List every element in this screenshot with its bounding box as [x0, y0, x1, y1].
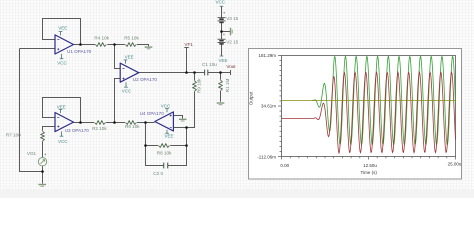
wire U1 feedback loop: [43, 19, 81, 45]
U4 inverting input mark: [170, 127, 172, 129]
node R9 tap on U2 output: [193, 71, 196, 74]
wire U2 output run to C1: [138, 72, 204, 74]
generator VG1: [38, 158, 46, 166]
wire R1 bottom to ground: [220, 91, 222, 102]
wire U3 noninverting input to R7: [43, 127, 56, 131]
wire battery V3 to node to battery V2: [221, 22, 223, 39]
power pin VCC U2: [124, 82, 128, 87]
node U3 output junction: [79, 121, 82, 124]
wire R6 to U4 output apex: [137, 122, 155, 124]
svg-text:U1 OPA170: U1 OPA170: [67, 49, 92, 54]
svg-text:VCC: VCC: [122, 88, 132, 93]
wire VF1 probe stub: [184, 48, 188, 73]
U2 noninverting input mark: [123, 78, 125, 80]
svg-text:12.50u: 12.50u: [363, 163, 377, 168]
resistor R9 10k: [193, 81, 197, 91]
wire power rail VCC pin to battery V3: [221, 6, 223, 17]
capacitor C2 0: [164, 163, 168, 169]
plot trace olive reference line: [282, 100, 456, 102]
U3 noninverting input mark: [57, 126, 59, 128]
power pin VCC U1: [60, 54, 64, 59]
svg-text:R4 10k: R4 10k: [94, 36, 109, 41]
wire U3 output to R2: [74, 122, 95, 124]
svg-text:0.00: 0.00: [280, 163, 289, 168]
svg-text:VCC: VCC: [161, 103, 171, 108]
svg-text:25.00u: 25.00u: [448, 161, 462, 166]
wire R4 to R5 node: [107, 44, 125, 46]
resistor R5 10k: [125, 43, 136, 47]
U3 inverting input mark: [57, 117, 59, 119]
svg-text:VCC: VCC: [57, 60, 67, 65]
svg-text:VEE: VEE: [165, 134, 174, 139]
node VF1 probe tap: [185, 71, 188, 74]
node U4 inverting input junction: [185, 126, 188, 129]
plot x-axis ticks: [282, 157, 456, 160]
U1 inverting input mark: [57, 39, 59, 41]
wire R2 to summing node to R6: [106, 122, 125, 124]
resistor R8 10k: [159, 144, 170, 148]
resistor R7 100: [41, 131, 45, 141]
svg-text:R9 10k: R9 10k: [196, 78, 201, 93]
power pin VEE rail bottom: [220, 55, 224, 57]
plot trace red (second output): [282, 72, 456, 153]
battery V2 15: [218, 39, 226, 44]
wire R8 leads: [146, 145, 187, 147]
svg-text:V3 15: V3 15: [226, 16, 238, 21]
svg-text:Time (s): Time (s): [361, 170, 378, 175]
resistor R6 10k: [126, 121, 137, 125]
svg-text:VCC: VCC: [58, 139, 68, 144]
wire U3 feedback loop: [43, 98, 81, 123]
resistor R4 10k: [95, 43, 106, 47]
power pin VEE U1: [59, 32, 63, 36]
capacitor C1 10u: [205, 70, 208, 76]
svg-text:U2 OPA170: U2 OPA170: [133, 77, 158, 82]
resistor R2 10k: [95, 121, 106, 125]
svg-text:U4 OPA170: U4 OPA170: [140, 111, 165, 116]
svg-text:Vout: Vout: [226, 64, 236, 69]
svg-text:R2 10k: R2 10k: [92, 126, 107, 131]
U1 noninverting input mark: [57, 48, 59, 50]
svg-text:V2 15: V2 15: [226, 40, 238, 45]
power pin VEE U4: [165, 130, 169, 134]
wire U4 feedback right side: [168, 128, 187, 166]
svg-text:Output: Output: [249, 91, 254, 105]
svg-text:R5 10k: R5 10k: [124, 35, 139, 40]
battery V3 15: [218, 18, 226, 23]
svg-text:VCC: VCC: [216, 0, 226, 5]
wire long left loop from U1 +input down to VG1 bottom node: [20, 49, 56, 172]
svg-text:VEE: VEE: [57, 104, 66, 109]
wire R9 top lead: [194, 73, 196, 81]
ground under VG1: [38, 184, 46, 186]
U4 noninverting input mark: [170, 115, 172, 117]
ground after R5: [145, 46, 153, 48]
wire battery V2 to VEE pin: [221, 44, 223, 56]
svg-text:VG1: VG1: [27, 151, 37, 156]
schematic canvas background: [0, 0, 474, 190]
wire VG1 bottom to ground through node: [42, 166, 44, 184]
wire summing node up to U2 noninverting input: [115, 79, 121, 123]
wire C1 to Vout pin: [208, 72, 231, 74]
power pin bars (VCC / VEE T-symbols): [59, 6, 224, 136]
node Vout / C1-R1 junction: [219, 71, 222, 74]
svg-text:R7 100: R7 100: [6, 132, 21, 137]
svg-text:VEE: VEE: [125, 55, 134, 60]
power pin VCC rail top: [220, 5, 224, 7]
svg-text:-112.06m: -112.06m: [257, 155, 276, 160]
svg-text:C1 10u: C1 10u: [202, 62, 217, 67]
node R4/R5 divider junction: [113, 43, 116, 46]
wire R7 to VG1 top: [42, 141, 44, 157]
wire node to U2 inverting input: [115, 45, 121, 69]
ground symbols: [38, 28, 232, 187]
node VG1 bottom ground junction: [41, 170, 44, 173]
plot trace green (growing oscillation): [312, 56, 456, 145]
svg-text:34.61m: 34.61m: [261, 104, 276, 109]
svg-text:VEE: VEE: [58, 25, 67, 30]
op-amp U1 OPA170: [55, 35, 74, 54]
ground under R1: [217, 102, 225, 104]
svg-text:VF1: VF1: [184, 42, 193, 47]
wire mid node to ground stub: [222, 31, 231, 33]
svg-text:U3 OPA170: U3 OPA170: [65, 128, 90, 133]
plot window: [249, 49, 462, 180]
node U4 output / feedback left junction: [144, 121, 147, 124]
op-amp U3 OPA170: [55, 113, 74, 132]
wire R1 top lead: [220, 73, 222, 80]
svg-text:R1 1M: R1 1M: [225, 78, 230, 92]
node battery midpoint junction: [220, 30, 223, 33]
power pin VCC U4: [165, 109, 169, 113]
svg-text:C2 0: C2 0: [153, 171, 163, 176]
U2 inverting input mark: [123, 68, 125, 70]
svg-text:R6 10k: R6 10k: [125, 124, 140, 129]
wire Vout pin bar: [230, 70, 232, 75]
node U1 output junction: [79, 43, 82, 46]
wire U4 noninverting input to ground stub: [173, 116, 182, 119]
node summing junction R2/R6 to U2: [113, 121, 116, 124]
op-amp U2 OPA170: [120, 63, 139, 82]
svg-text:VEE: VEE: [219, 58, 228, 63]
plot y-axis ticks: [278, 56, 282, 157]
node feedback right R8 junction: [185, 144, 188, 147]
op-amp U4 OPA170 (mirrored): [155, 112, 174, 131]
wire R9 bottom to U4 inverting input: [173, 92, 194, 128]
power pin VCC U3: [60, 131, 64, 136]
resistor R1 1M: [219, 80, 223, 91]
plot axis labels: [249, 53, 462, 175]
ground power rail mid: [230, 28, 232, 36]
wire U1 output to R4: [74, 44, 96, 46]
node feedback left R8 junction: [144, 144, 147, 147]
power pin VEE U3: [59, 109, 63, 113]
svg-text:R8 10k: R8 10k: [157, 150, 172, 155]
ground at U4 noninverting input: [179, 118, 187, 120]
wire R5 to ground stub: [137, 45, 149, 47]
plot axis frame: [282, 56, 456, 157]
wire U4 feedback left side: [146, 123, 164, 166]
svg-text:181.29m: 181.29m: [258, 53, 276, 58]
power pin VEE U2: [124, 60, 128, 64]
